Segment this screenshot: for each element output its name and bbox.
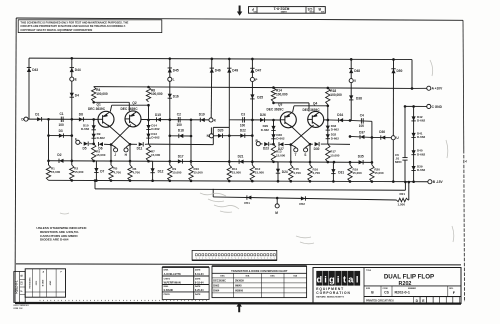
svg-text:D-662: D-662	[417, 168, 426, 172]
svg-text:EIA: EIA	[246, 275, 250, 278]
terminal T	[291, 145, 296, 148]
svg-text:A +10V: A +10V	[432, 87, 443, 91]
svg-text:C2: C2	[177, 112, 181, 116]
svg-text:C3: C3	[241, 113, 245, 117]
svg-text:D11: D11	[137, 147, 143, 151]
svg-text:F: F	[75, 138, 77, 142]
diode D47	[250, 68, 254, 73]
svg-text:D-662: D-662	[417, 119, 426, 123]
svg-text:Q2: Q2	[132, 101, 136, 105]
wire D18 row	[170, 135, 191, 137]
wire +10V top rail	[29, 58, 412, 59]
wire Q2 emitter diagonal	[111, 125, 131, 145]
diode D10 D-662	[92, 125, 96, 130]
diode D23	[260, 143, 262, 145]
wire D37 row	[350, 136, 372, 137]
drafting signature table	[162, 266, 209, 268]
transistor Q4	[308, 111, 324, 127]
resistor R14 100,000	[271, 88, 275, 102]
wire Q4 emitter diagonal	[291, 125, 314, 145]
svg-text:D26: D26	[260, 113, 266, 117]
size code number rev row	[380, 286, 382, 297]
scan smudge artifacts	[60, 60, 454, 244]
resistor R8 100,000	[146, 87, 150, 102]
svg-text:CIRCUITS ARE PROPRIETARY IN NA: CIRCUITS ARE PROPRIETARY IN NATURE AND S…	[20, 24, 126, 28]
diode D34	[328, 119, 350, 122]
svg-text:D7: D7	[100, 169, 104, 173]
terminal N	[209, 134, 213, 138]
svg-text:100,000: 100,000	[151, 92, 163, 96]
svg-text:PRINTED CIRCUIT REV.: PRINTED CIRCUIT REV.	[366, 299, 394, 302]
svg-text:D-662: D-662	[261, 128, 270, 132]
svg-text:D51: D51	[244, 201, 250, 205]
svg-text:THIS SCHEMATIC IS FURNISHED ON: THIS SCHEMATIC IS FURNISHED ONLY FOR TES…	[20, 20, 128, 24]
svg-text:D25: D25	[257, 95, 263, 99]
diode D21	[239, 159, 244, 163]
svg-text:C1: C1	[60, 112, 64, 116]
svg-text:MAYNARD. MASSACHUSETTS: MAYNARD. MASSACHUSETTS	[316, 295, 344, 298]
svg-text:DEC: DEC	[270, 276, 275, 278]
svg-text:REV.: REV.	[449, 288, 454, 290]
divider column D14 D13	[148, 105, 150, 144]
diode D49	[227, 68, 231, 73]
terminal F	[76, 140, 80, 144]
wire Q1 emitter resistor column	[110, 145, 112, 165]
wire GND row	[405, 105, 427, 107]
svg-text:IN645: IN645	[235, 285, 242, 288]
resistor R13 15,000	[271, 144, 275, 162]
svg-text:REVISIONS: REVISIONS	[29, 277, 31, 289]
svg-text:DEC 3639C: DEC 3639C	[88, 107, 106, 111]
diode D30	[315, 142, 320, 146]
svg-text:15,000: 15,000	[96, 153, 106, 157]
svg-text:D4: D4	[75, 94, 79, 98]
svg-text:D35: D35	[358, 155, 364, 159]
svg-text:8-18-64: 8-18-64	[195, 281, 204, 284]
node Q4 emitter junction T side	[290, 143, 293, 146]
svg-text:D-662: D-662	[276, 136, 285, 140]
svg-text:15,000: 15,000	[194, 171, 204, 175]
svg-text:DEC 3639C: DEC 3639C	[267, 108, 285, 112]
diode D11	[139, 142, 144, 146]
svg-text:g: g	[329, 274, 335, 284]
svg-text:i: i	[337, 274, 340, 284]
node Q1 emitter junction H side	[129, 143, 132, 146]
svg-text:TITLE: TITLE	[366, 270, 372, 272]
svg-text:15,000: 15,000	[74, 170, 84, 174]
terminal J	[111, 145, 116, 148]
svg-text:T: T	[295, 153, 297, 157]
resistor R21 1,500	[397, 198, 409, 202]
svg-text:B: B	[20, 274, 24, 276]
node Q1 base row	[26, 118, 98, 120]
bottom edge tick marks	[39, 300, 41, 301]
diode D18	[179, 134, 184, 138]
svg-text:DATE: DATE	[195, 277, 201, 280]
svg-text:i: i	[324, 274, 327, 284]
divider column D29 D28	[273, 120, 275, 144]
resistor R3 15,000	[92, 144, 96, 161]
svg-text:D662: D662	[213, 285, 220, 288]
wire Q4 emitter resistor column	[290, 145, 292, 165]
svg-text:D31: D31	[338, 171, 344, 175]
diode D41 D-662	[411, 133, 415, 138]
diode D50	[391, 69, 395, 74]
svg-text:C GND: C GND	[432, 105, 443, 109]
svg-text:15,000: 15,000	[330, 153, 340, 157]
revisions table	[16, 264, 461, 265]
diode D6	[99, 142, 104, 146]
wire D30 row to column	[328, 143, 350, 145]
svg-text:t: t	[343, 274, 346, 284]
svg-text:TRANSISTOR & DIODE CONVERSION: TRANSISTOR & DIODE CONVERSION CHART	[231, 269, 288, 273]
svg-text:D36: D36	[379, 130, 385, 134]
capacitor C3 100	[242, 117, 244, 122]
svg-text:IN3606: IN3606	[235, 290, 244, 293]
diode D2	[59, 159, 64, 163]
proprietary notice box	[18, 20, 162, 33]
wire D3 row	[49, 135, 72, 137]
wire Q3 collector cross-coupling	[293, 106, 294, 112]
svg-text:D45: D45	[173, 68, 179, 72]
svg-text:100,000: 100,000	[276, 92, 288, 96]
transistor Q3	[280, 112, 296, 128]
svg-text:8-19-64: 8-19-64	[195, 273, 204, 276]
svg-text:L: L	[173, 78, 175, 82]
diode D48	[349, 69, 353, 74]
svg-text:l: l	[356, 274, 359, 284]
wire N bend to C3 row	[228, 120, 230, 128]
svg-text:D24: D24	[282, 170, 288, 174]
diode D1	[37, 117, 42, 121]
fold arrow top	[237, 6, 242, 16]
svg-text:S: S	[304, 153, 306, 157]
terminal V	[349, 79, 353, 83]
svg-text:D-662: D-662	[97, 136, 106, 140]
svg-text:D20: D20	[218, 129, 224, 133]
wire D46 column to K	[210, 59, 213, 118]
svg-text:DRN.: DRN.	[164, 270, 170, 272]
terminal A +10V	[427, 86, 431, 90]
capacitor C2 100	[177, 117, 179, 122]
svg-text:15,000: 15,000	[374, 171, 384, 175]
svg-text:DEC3639C: DEC3639C	[213, 280, 226, 283]
svg-text:D-662: D-662	[417, 135, 426, 139]
svg-text:M: M	[275, 211, 278, 215]
resistor R17 15,000	[326, 144, 330, 162]
svg-text:D21: D21	[238, 155, 244, 159]
diode D14 D-662	[146, 125, 150, 130]
diode D8	[79, 117, 84, 121]
wire output row D2	[49, 161, 372, 163]
svg-text:D30: D30	[314, 147, 320, 151]
resistor R20 15,000	[370, 165, 374, 182]
svg-text:C O R P O R A T I O N: C O R P O R A T I O N	[316, 291, 350, 295]
svg-text:R202-0-1: R202-0-1	[15, 280, 19, 294]
diode D42 D-662	[411, 116, 415, 121]
wire Q4 base row	[324, 119, 328, 121]
svg-text:CS: CS	[384, 291, 389, 295]
svg-text:DUAL FLIP FLOP: DUAL FLIP FLOP	[384, 274, 434, 281]
resistor R1 15,000	[46, 165, 50, 180]
svg-text:100: 100	[240, 123, 246, 127]
wire N drop	[210, 127, 212, 133]
svg-text:COPYRIGHT 1964 BY DIGITAL EQUI: COPYRIGHT 1964 BY DIGITAL EQUIPMENT CORP…	[20, 28, 92, 32]
divider column D10 D9	[93, 119, 95, 143]
svg-text:A.OUELLETTE: A.OUELLETTE	[164, 273, 182, 276]
svg-text:15,000: 15,000	[51, 170, 61, 174]
svg-text:D47: D47	[255, 69, 261, 73]
diode D35	[359, 160, 364, 164]
terminal D	[24, 117, 28, 121]
svg-text:100,000: 100,000	[330, 93, 342, 97]
svg-text:CHK'D: CHK'D	[164, 278, 171, 280]
svg-text:D1: D1	[35, 113, 39, 117]
svg-text:D49: D49	[232, 68, 238, 72]
svg-text:DAY FORM NO: DAY FORM NO	[14, 304, 30, 307]
svg-text:D12: D12	[158, 170, 164, 174]
sheet border frame	[16, 18, 463, 20]
svg-text:15,000: 15,000	[232, 171, 242, 175]
svg-text:D22: D22	[240, 129, 246, 133]
transistor and diode conversion chart	[212, 265, 307, 267]
diode D13 D-662	[146, 134, 150, 139]
resistor R5 4,700	[109, 165, 113, 181]
svg-text:100: 100	[177, 123, 183, 127]
resistor R18 100,000	[326, 88, 330, 105]
svg-text:D8: D8	[79, 113, 83, 117]
svg-text:4,700: 4,700	[313, 171, 321, 175]
svg-text:1,500: 1,500	[398, 202, 406, 206]
svg-text:D38: D38	[356, 96, 362, 100]
resistor R19 15,000	[348, 165, 352, 181]
svg-text:D2: D2	[57, 153, 61, 157]
diode D15	[157, 117, 162, 121]
terminal H	[126, 144, 130, 147]
diode D16	[168, 94, 172, 99]
transistor Q1	[98, 111, 114, 127]
svg-text:B 5858: B 5858	[43, 279, 45, 286]
diode D33 D-662	[326, 126, 330, 130]
svg-text:D-662: D-662	[331, 128, 340, 132]
svg-text:D19: D19	[199, 112, 205, 116]
svg-text:100,000: 100,000	[96, 92, 108, 96]
junction dots on -15V rail	[71, 179, 74, 182]
wire Q4 collector cross-coupling	[274, 102, 310, 104]
diode D25	[250, 94, 254, 99]
diode D43	[27, 67, 31, 72]
diode D37	[360, 135, 365, 139]
wire Q3 emitter diagonal	[290, 126, 310, 145]
svg-text:CODE: CODE	[309, 10, 313, 12]
svg-text:C4: C4	[360, 113, 364, 117]
svg-text:D34: D34	[337, 113, 343, 117]
svg-text:a: a	[348, 274, 354, 284]
terminal S	[306, 144, 310, 147]
svg-text:D50: D50	[397, 69, 403, 73]
resistor R7 15,000	[146, 144, 150, 161]
resistor R9 15,000	[168, 165, 172, 181]
svg-text:NUMBER: NUMBER	[281, 10, 287, 12]
svg-text:D17: D17	[178, 154, 184, 158]
diode D40 D-662	[411, 150, 415, 155]
wire M rail 3	[213, 197, 396, 200]
wire Q1 collector cross-coupling	[110, 105, 111, 111]
svg-text:R202-0-1: R202-0-1	[395, 291, 410, 295]
diode D17	[178, 159, 183, 163]
diode D24	[274, 161, 279, 163]
resistor R6 4,700	[128, 165, 132, 181]
wire Q3 base row	[229, 119, 280, 121]
wire D45 column	[169, 59, 171, 121]
svg-text:EIA: EIA	[293, 275, 297, 278]
svg-text:15,000: 15,000	[151, 153, 161, 157]
svg-text:R21: R21	[400, 192, 406, 196]
svg-text:PROD.: PROD.	[164, 294, 171, 296]
svg-text:NUMBER: NUMBER	[408, 288, 417, 290]
resistor R11 15,000	[227, 165, 231, 181]
svg-text:D16: D16	[173, 95, 179, 99]
wire D48 column	[350, 59, 352, 120]
svg-text:ENG.: ENG.	[164, 286, 170, 288]
svg-text:DEC: DEC	[220, 276, 225, 278]
svg-text:D15: D15	[155, 113, 161, 117]
svg-text:W.PERRYMAN: W.PERRYMAN	[164, 281, 181, 284]
svg-text:D44: D44	[75, 68, 81, 72]
svg-text:D3: D3	[59, 129, 63, 133]
wire C4 corner down	[371, 121, 373, 162]
svg-text:D46: D46	[215, 68, 221, 72]
wire Q2 emitter resistor column	[129, 144, 131, 165]
svg-text:4,700: 4,700	[114, 170, 122, 174]
svg-text:D18: D18	[178, 129, 184, 133]
terminal R	[256, 142, 260, 146]
terminal E	[70, 77, 74, 81]
fold-over title strip (rotated 180)	[249, 7, 326, 14]
svg-text:D43: D43	[32, 68, 38, 72]
diode D4	[70, 93, 74, 98]
resistor R4 100,000	[92, 87, 96, 102]
diode D39 D-662	[411, 166, 415, 171]
terminal K	[209, 118, 213, 122]
svg-text:B -15V: B -15V	[433, 180, 444, 184]
svg-text:E.BANK: E.BANK	[164, 289, 174, 292]
diode D31	[328, 161, 334, 163]
terminal U	[391, 136, 395, 140]
resistor R12 15,000	[250, 165, 254, 181]
terminal B -15V	[428, 180, 432, 184]
svg-text:DEC 3639C: DEC 3639C	[303, 108, 321, 112]
diode D7	[94, 160, 97, 162]
resistor R10 15,000	[189, 165, 193, 181]
svg-text:SIZE: SIZE	[321, 10, 324, 12]
diode D28 D-662	[271, 134, 275, 139]
wire D20 D22 row	[213, 135, 229, 137]
svg-text:D664: D664	[213, 290, 220, 293]
svg-text:DATE: DATE	[195, 285, 201, 288]
diode D12	[149, 160, 153, 162]
resistor R2 15,000	[70, 165, 74, 180]
diode D45	[168, 68, 172, 73]
diode D3	[59, 133, 64, 137]
terminal C GND	[427, 104, 431, 108]
svg-text:DATE: DATE	[195, 293, 201, 296]
title block digital logo	[313, 268, 461, 304]
svg-text:100: 100	[59, 123, 65, 127]
wire set line to K bend	[149, 143, 214, 146]
svg-text:D52: D52	[299, 202, 305, 206]
svg-text:MFD: MFD	[395, 160, 402, 164]
svg-text:D48: D48	[354, 69, 360, 73]
resistor R16 4,700	[308, 165, 312, 181]
diode D19	[200, 118, 205, 122]
node Q2 emitter junction J side	[110, 143, 113, 146]
svg-text:CS: CS	[20, 281, 24, 285]
diode D27	[279, 142, 284, 146]
transistor Q2	[125, 111, 141, 127]
svg-text:D-662: D-662	[151, 136, 160, 140]
wire Q2 base row	[141, 119, 209, 121]
wire D49 column	[228, 59, 230, 120]
terminal L	[168, 77, 172, 81]
terminal M	[276, 198, 278, 204]
svg-text:4,700: 4,700	[293, 171, 301, 175]
wire R21 return to -15V rail	[407, 199, 410, 201]
svg-text:15,000: 15,000	[276, 153, 286, 157]
wire D50 column to U	[392, 59, 394, 135]
diode D46	[210, 68, 214, 73]
diode D29 D-662	[271, 126, 275, 130]
svg-text:E: E	[75, 77, 77, 81]
diode D22	[229, 135, 252, 137]
wire U column to rail	[392, 140, 394, 182]
edge connector strip	[192, 250, 277, 260]
svg-text:d: d	[316, 274, 322, 284]
capacitor C6 .01 MFD	[404, 106, 406, 157]
terminal P	[250, 77, 254, 81]
svg-text:8-20-64: 8-20-64	[195, 289, 204, 292]
svg-text:DATE: DATE	[195, 269, 201, 272]
svg-text:D-662: D-662	[81, 127, 90, 131]
svg-text:D23: D23	[263, 147, 269, 151]
svg-text:15,000: 15,000	[255, 171, 265, 175]
svg-text:15,000: 15,000	[353, 171, 363, 175]
wire -15V rail	[49, 180, 429, 181]
svg-text:DRB 102: DRB 102	[14, 308, 24, 310]
capacitor C1 100	[60, 117, 62, 122]
svg-text:D-662: D-662	[151, 127, 160, 131]
diode D51	[247, 195, 252, 199]
svg-text:15,000: 15,000	[172, 170, 182, 174]
wire Q1 emitter diagonal	[108, 125, 130, 144]
clamp column D42 D41 D40 D39	[413, 106, 415, 181]
capacitor C4 100	[350, 119, 372, 122]
svg-text:DIODES ARE D-664: DIODES ARE D-664	[40, 238, 69, 242]
wire Q2 collector cross-coupling	[94, 101, 130, 103]
rotated number block bottom left	[14, 272, 25, 303]
diode D5	[80, 142, 82, 143]
diode D9 D-662	[92, 134, 96, 139]
diode D20	[218, 134, 223, 138]
svg-text:Q1: Q1	[97, 102, 101, 106]
wire D44 column	[71, 58, 73, 119]
wire D43 column	[28, 58, 30, 119]
diode D36	[372, 136, 392, 138]
diode D52	[301, 196, 306, 200]
svg-text:D37: D37	[359, 130, 365, 134]
node Q3 emitter junction S side	[309, 143, 312, 146]
wire +10V feed to terminal A	[94, 87, 412, 89]
